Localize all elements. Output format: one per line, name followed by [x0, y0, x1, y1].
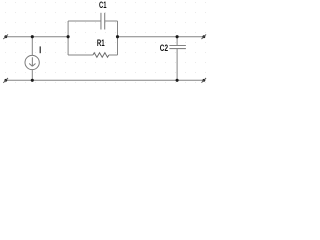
svg-text:C2: C2: [160, 43, 169, 53]
svg-text:R1: R1: [97, 38, 105, 49]
svg-text:C1: C1: [99, 0, 107, 11]
